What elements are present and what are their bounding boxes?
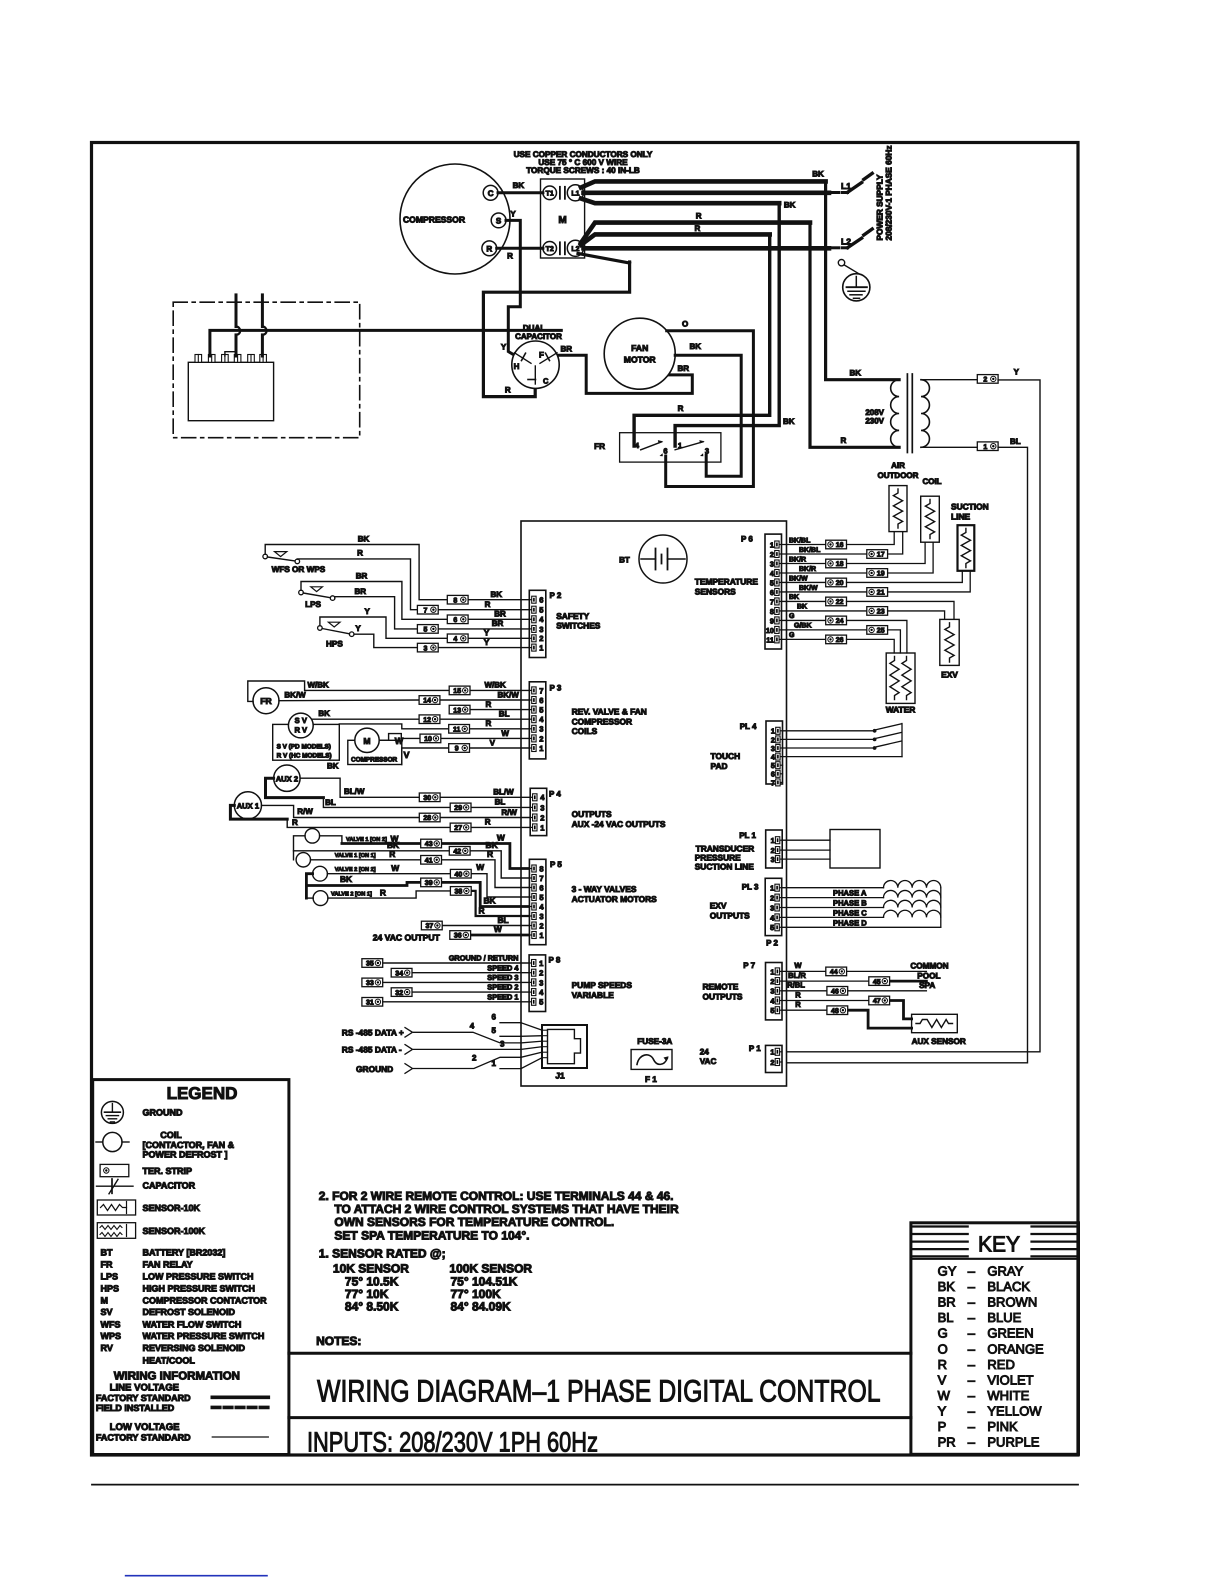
J1 stub wire 6 xyxy=(492,1013,521,1023)
disconnect supply wire 2 xyxy=(262,295,266,356)
terminal 9 xyxy=(449,744,470,753)
svg-text:2: 2 xyxy=(540,813,544,822)
svg-text:6: 6 xyxy=(453,617,457,624)
svg-text:R: R xyxy=(678,404,684,413)
contactor M box xyxy=(541,179,585,258)
svg-text:LEGEND: LEGEND xyxy=(167,1084,238,1103)
wire R compressor R to T2 xyxy=(497,248,543,260)
svg-text:45: 45 xyxy=(873,979,881,986)
svg-text:GRAY: GRAY xyxy=(987,1264,1023,1279)
svg-text:PL 1: PL 1 xyxy=(739,831,756,840)
svg-text:VAC: VAC xyxy=(700,1057,717,1066)
svg-text:S: S xyxy=(496,216,502,225)
FR contact 1-3 xyxy=(675,440,709,456)
svg-text:BK: BK xyxy=(812,170,824,179)
wire BK/BL P6 pin 2 to terminal 17 xyxy=(782,546,867,554)
svg-text:17: 17 xyxy=(877,552,885,559)
svg-text:PURPLE: PURPLE xyxy=(987,1435,1039,1450)
wire BK/W P6 pin 6 to terminal 21 xyxy=(782,584,867,592)
svg-text:10K SENSOR: 10K SENSOR xyxy=(333,1262,409,1276)
terminal 32 xyxy=(391,988,412,997)
svg-text:Y: Y xyxy=(355,624,361,633)
svg-text:6: 6 xyxy=(539,696,543,705)
svg-text:SAFETY: SAFETY xyxy=(556,611,589,621)
svg-text:BLACK: BLACK xyxy=(987,1279,1030,1294)
svg-text:2: 2 xyxy=(770,550,774,559)
power switch L1 blade and dashes xyxy=(831,173,872,192)
svg-text:FR: FR xyxy=(260,696,272,706)
svg-text:PR: PR xyxy=(938,1435,956,1450)
svg-text:G/BK: G/BK xyxy=(794,622,812,630)
terminal 8 xyxy=(447,595,468,604)
svg-text:L2: L2 xyxy=(841,237,851,247)
svg-text:WATER: WATER xyxy=(886,705,916,715)
svg-text:6: 6 xyxy=(539,596,543,605)
svg-text:12: 12 xyxy=(423,717,431,724)
legend abbreviation list xyxy=(101,1248,268,1366)
svg-text:47: 47 xyxy=(873,998,881,1005)
svg-text:26: 26 xyxy=(836,637,844,644)
wire BK P6 pin 8 to terminal 23 xyxy=(782,604,867,611)
legend capacitor symbol xyxy=(97,1179,196,1194)
sensor SUCTION LINE 10K xyxy=(958,525,975,571)
svg-text:T1: T1 xyxy=(546,191,554,198)
svg-text:2: 2 xyxy=(770,1058,774,1067)
svg-text:RED: RED xyxy=(987,1357,1014,1372)
svg-text:HPS: HPS xyxy=(101,1284,120,1294)
wire G P6 pin 9 to terminal 24 xyxy=(782,613,826,620)
legend coil symbol xyxy=(96,1130,235,1159)
wires air outdoor sensor to terminals 16 17 xyxy=(847,532,903,554)
svg-text:R: R xyxy=(505,385,511,394)
svg-text:Y: Y xyxy=(501,343,507,352)
svg-text:7: 7 xyxy=(539,686,543,695)
svg-text:P 6: P 6 xyxy=(741,535,753,544)
svg-text:COMPRESSOR CONTACTOR: COMPRESSOR CONTACTOR xyxy=(143,1295,268,1305)
contact marks T1-L1 xyxy=(560,187,565,199)
terminal 34 xyxy=(391,968,412,977)
svg-text:Y: Y xyxy=(484,629,490,638)
svg-text:AUX -24 VAC OUTPUTS: AUX -24 VAC OUTPUTS xyxy=(572,819,666,829)
svg-text:BR: BR xyxy=(678,364,690,373)
svg-text:4: 4 xyxy=(470,1022,475,1031)
terminal 4 xyxy=(447,634,468,643)
svg-text:5: 5 xyxy=(770,923,774,932)
terminal 38 xyxy=(450,887,471,896)
svg-text:P 2: P 2 xyxy=(766,939,778,948)
wire BL/R P7 pin2 to terminal 45 POOL xyxy=(782,971,941,981)
J1 stub wire 1 xyxy=(492,1059,521,1069)
svg-text:SPEED 2: SPEED 2 xyxy=(487,983,518,992)
svg-text:5: 5 xyxy=(770,1006,774,1015)
svg-text:208/230V-1 PHASE 60Hz: 208/230V-1 PHASE 60Hz xyxy=(884,145,894,240)
svg-text:AUX 2: AUX 2 xyxy=(276,774,298,783)
svg-text:3: 3 xyxy=(539,725,543,734)
connector P7 xyxy=(766,963,783,1020)
svg-text:REVERSING SOLENOID: REVERSING SOLENOID xyxy=(143,1343,246,1353)
connector PL1 xyxy=(766,830,783,868)
disconnect terminal teeth xyxy=(195,355,266,363)
svg-text:GREEN: GREEN xyxy=(987,1326,1033,1341)
wire R AUX1 left to terminal 27 to P4 pin 1 xyxy=(230,805,530,827)
svg-text:TER. STRIP: TER. STRIP xyxy=(143,1166,193,1176)
svg-text:W: W xyxy=(497,833,505,843)
svg-text:BT: BT xyxy=(101,1248,113,1258)
sensor WATER dual 10K xyxy=(886,653,915,703)
svg-text:WPS: WPS xyxy=(101,1331,122,1341)
svg-text:COIL: COIL xyxy=(922,477,941,486)
svg-text:6: 6 xyxy=(770,588,774,597)
wire SPEED 2 terminal 32 to P8 pin 4 xyxy=(412,983,529,992)
svg-text:HIGH PRESSURE SWITCH: HIGH PRESSURE SWITCH xyxy=(143,1284,256,1294)
aux relay coil AUX 2 xyxy=(274,765,300,791)
svg-text:FACTORY STANDARD: FACTORY STANDARD xyxy=(96,1433,191,1443)
svg-text:11: 11 xyxy=(453,727,461,734)
legend terminal strip symbol xyxy=(100,1164,192,1176)
terminal 47 xyxy=(869,996,890,1005)
RS-485 DATA - wire xyxy=(342,1040,521,1055)
wire R L2 loop to capacitor C terminal xyxy=(483,254,629,397)
svg-text:20: 20 xyxy=(836,580,844,587)
wire R valve1 ON1 to terminal 41 to P5 pin 6 xyxy=(311,849,530,887)
svg-text:FR: FR xyxy=(101,1260,113,1270)
svg-text:1: 1 xyxy=(770,884,774,893)
svg-text:O: O xyxy=(682,320,688,329)
svg-text:POOL: POOL xyxy=(917,971,940,980)
transformer 208/230V xyxy=(865,374,929,453)
wire BK/BL P6 pin 1 to terminal 16 xyxy=(782,536,826,544)
svg-text:–: – xyxy=(968,1279,976,1294)
svg-text:7: 7 xyxy=(423,607,427,614)
svg-text:VALVE 2 [ON 2]: VALVE 2 [ON 2] xyxy=(335,866,376,873)
svg-text:BL: BL xyxy=(1010,437,1021,446)
valve 2 coil ON1 xyxy=(313,891,328,906)
svg-text:–: – xyxy=(968,1357,976,1372)
svg-text:LPS: LPS xyxy=(305,600,321,609)
svg-text:BK/BL: BK/BL xyxy=(789,536,811,544)
svg-text:PHASE A: PHASE A xyxy=(833,889,867,898)
wire R L2 to transformer primary bottom xyxy=(581,212,899,448)
svg-text:M: M xyxy=(363,736,370,746)
jack J1 xyxy=(542,1025,587,1081)
wire R valve2 ON1 to terminal 38 to P5 pin 3 xyxy=(306,887,529,916)
svg-text:–: – xyxy=(968,1310,976,1325)
svg-text:19: 19 xyxy=(877,571,885,578)
svg-text:LOW PRESSURE SWITCH: LOW PRESSURE SWITCH xyxy=(143,1272,254,1282)
EXV phase coils xyxy=(782,881,941,928)
svg-text:BR: BR xyxy=(356,572,368,581)
svg-text:W: W xyxy=(494,924,502,934)
aux sensor resistor xyxy=(912,1014,966,1046)
svg-text:42: 42 xyxy=(453,849,461,856)
line voltage factory standard sample xyxy=(96,1393,268,1403)
key color list xyxy=(938,1264,1044,1450)
svg-text:GROUND: GROUND xyxy=(143,1108,183,1118)
svg-text:R: R xyxy=(292,818,298,827)
svg-text:1: 1 xyxy=(771,836,775,845)
svg-text:–: – xyxy=(968,1341,976,1356)
wire BL/W AUX2 to terminal 30 to P4 pin 4 xyxy=(300,778,530,797)
contactor T2 terminal xyxy=(543,242,557,256)
svg-text:Y: Y xyxy=(510,210,516,219)
fuse F1 xyxy=(631,1037,672,1084)
svg-text:BK: BK xyxy=(491,590,503,599)
GROUND wire xyxy=(356,1054,521,1074)
fan relay FR contact box xyxy=(620,433,721,462)
connector PL3 xyxy=(765,878,782,935)
wire BK valve2 common to terminal 39 to P5 pin 4 xyxy=(306,874,529,907)
svg-text:G: G xyxy=(938,1326,948,1341)
svg-text:BK: BK xyxy=(358,535,370,544)
control board outline xyxy=(521,521,787,1086)
svg-text:H: H xyxy=(514,362,520,371)
svg-text:5: 5 xyxy=(423,627,427,634)
svg-text:REV. VALVE & FAN: REV. VALVE & FAN xyxy=(572,707,647,717)
svg-text:46: 46 xyxy=(831,989,839,996)
svg-text:3: 3 xyxy=(423,645,427,652)
svg-text:P 1: P 1 xyxy=(749,1044,761,1053)
svg-text:230V: 230V xyxy=(865,416,884,425)
svg-text:R/W: R/W xyxy=(297,807,313,816)
svg-text:1: 1 xyxy=(492,1059,497,1068)
terminal 3 xyxy=(417,643,438,652)
svg-text:WFS OR WPS: WFS OR WPS xyxy=(272,565,326,574)
svg-text:1: 1 xyxy=(770,1048,774,1057)
disconnect panel box xyxy=(188,362,273,420)
svg-text:SENSOR-10K: SENSOR-10K xyxy=(143,1203,201,1213)
terminal 31 xyxy=(362,998,383,1007)
svg-text:FIELD INSTALLED: FIELD INSTALLED xyxy=(96,1403,175,1413)
wire BL terminal 1 to P1 pin 2 xyxy=(787,437,1028,1063)
svg-text:S V (PD MODELS): S V (PD MODELS) xyxy=(277,744,331,751)
svg-text:PHASE B: PHASE B xyxy=(833,899,867,908)
terminal 23 xyxy=(867,607,888,616)
terminal 12 xyxy=(419,715,440,724)
svg-text:BK: BK xyxy=(690,342,702,351)
svg-text:R: R xyxy=(486,244,492,253)
wire Y compressor S to dual capacitor H xyxy=(501,210,524,361)
J1 fan-in wires xyxy=(521,1023,542,1069)
terminal 30 xyxy=(419,793,440,802)
svg-text:3: 3 xyxy=(770,987,774,996)
terminal 15 xyxy=(449,686,470,695)
svg-text:BL: BL xyxy=(499,710,510,719)
svg-text:24: 24 xyxy=(836,618,844,625)
svg-text:NOTES:: NOTES: xyxy=(316,1334,361,1348)
svg-text:PL 4: PL 4 xyxy=(740,722,757,731)
wire BK valve1 common to terminal 42 to P5 pin 7 xyxy=(294,836,530,878)
svg-text:BK: BK xyxy=(318,709,330,718)
terminal 21 xyxy=(867,588,888,597)
sensor AIR OUTDOOR 10K xyxy=(889,486,907,532)
svg-text:W: W xyxy=(476,862,484,872)
svg-text:CAPACITOR: CAPACITOR xyxy=(515,332,562,341)
wire BK/W FR coil to terminal 14 to P3 pin 6 xyxy=(279,690,529,700)
terminal 16 xyxy=(826,540,847,549)
wire L2 feed to disconnect switch xyxy=(584,246,830,251)
wire BK fan motor to FR contact 3 xyxy=(675,342,741,476)
svg-text:W/BK: W/BK xyxy=(485,681,507,690)
svg-text:AIR: AIR xyxy=(891,461,905,470)
svg-text:R: R xyxy=(486,719,492,728)
wire BK WFS to terminal 8 to P2 pin 6 xyxy=(265,535,529,600)
svg-text:15: 15 xyxy=(453,688,461,695)
svg-text:KEY: KEY xyxy=(978,1232,1020,1257)
svg-text:P 8: P 8 xyxy=(549,956,561,965)
svg-text:W/BK: W/BK xyxy=(308,681,330,690)
svg-text:R: R xyxy=(795,1000,801,1009)
wire BK L1 to fan relay contact 1 xyxy=(581,199,796,447)
wire W valve1 ON2 to terminal 43 to P5 pin 8 xyxy=(320,833,530,869)
svg-text:WIRING DIAGRAM–1 PHASE DIGI: WIRING DIAGRAM–1 PHASE DIGITAL CONTROL xyxy=(317,1374,881,1409)
svg-text:WIRING INFORMATION: WIRING INFORMATION xyxy=(114,1371,240,1383)
svg-text:2: 2 xyxy=(983,377,987,384)
svg-text:OUTDOOR: OUTDOOR xyxy=(878,471,919,480)
FR contact 4-6 xyxy=(635,440,668,456)
sensor COIL 10K xyxy=(921,496,940,542)
contactor L2 terminal xyxy=(567,240,583,256)
svg-text:3: 3 xyxy=(539,978,543,987)
svg-text:BK: BK xyxy=(784,201,796,210)
svg-text:CAPACITOR: CAPACITOR xyxy=(143,1181,196,1191)
svg-text:RV: RV xyxy=(101,1343,113,1353)
svg-text:W: W xyxy=(938,1388,951,1403)
svg-text:POWER DEFROST ]: POWER DEFROST ] xyxy=(143,1149,228,1159)
terminal 44 xyxy=(826,967,847,976)
switch WFS OR WPS xyxy=(263,552,326,574)
svg-text:FUSE-3A: FUSE-3A xyxy=(637,1037,672,1046)
wires WATER sensor to terminals 24 25 26 xyxy=(847,620,907,653)
svg-text:R: R xyxy=(380,887,386,897)
terminal 48 xyxy=(827,1006,848,1015)
svg-text:BK: BK xyxy=(789,594,799,601)
connector P3 xyxy=(529,682,546,759)
svg-text:1: 1 xyxy=(770,967,774,976)
wire SPEED 1 terminal 31 to P8 pin 5 xyxy=(383,992,529,1001)
blue footer underline xyxy=(126,1575,267,1577)
wire BK/R P6 pin 4 to terminal 19 xyxy=(782,565,867,573)
svg-text:BK: BK xyxy=(797,604,807,611)
svg-text:BK: BK xyxy=(327,762,339,771)
svg-text:W: W xyxy=(501,729,509,738)
svg-text:V: V xyxy=(938,1372,947,1387)
contact marks T2-L2 xyxy=(560,242,565,254)
svg-text:REMOTE: REMOTE xyxy=(703,982,739,992)
svg-text:P 4: P 4 xyxy=(549,790,561,799)
svg-text:–: – xyxy=(968,1435,976,1450)
terminal strip 1 xyxy=(977,442,998,451)
svg-text:24: 24 xyxy=(700,1048,710,1057)
svg-text:R: R xyxy=(938,1357,947,1372)
compressor terminal C xyxy=(483,185,498,200)
svg-text:R: R xyxy=(507,252,513,261)
svg-text:–: – xyxy=(968,1326,976,1341)
svg-text:SENSORS: SENSORS xyxy=(695,586,736,596)
svg-text:84° 84.09K: 84° 84.09K xyxy=(451,1300,512,1314)
terminal strip 2 xyxy=(977,375,998,384)
svg-text:BT: BT xyxy=(619,556,630,565)
svg-text:SV: SV xyxy=(101,1307,113,1317)
svg-text:3: 3 xyxy=(770,903,774,912)
svg-text:38: 38 xyxy=(455,889,463,896)
wire GROUND / RETURN terminal 35 to P8 pin 1 xyxy=(383,954,529,963)
svg-text:2: 2 xyxy=(771,846,775,855)
terminal 14 xyxy=(419,696,440,705)
svg-text:G: G xyxy=(789,632,795,639)
svg-text:2: 2 xyxy=(472,1054,477,1063)
svg-text:3: 3 xyxy=(771,855,775,864)
svg-text:SPEED 3: SPEED 3 xyxy=(487,973,518,982)
svg-text:31: 31 xyxy=(366,1000,374,1007)
svg-text:WATER FLOW SWITCH: WATER FLOW SWITCH xyxy=(143,1319,242,1329)
svg-text:C: C xyxy=(543,377,549,386)
svg-text:S V: S V xyxy=(295,716,308,725)
svg-text:VARIABLE: VARIABLE xyxy=(572,990,615,1000)
wires coil sensor to terminals 18 19 xyxy=(847,542,934,573)
svg-text:VALVE 1 [ON 2]: VALVE 1 [ON 2] xyxy=(346,836,387,843)
low voltage factory standard sample xyxy=(96,1433,268,1443)
wire BK compressor C to T1 xyxy=(498,181,543,193)
svg-text:HEAT/COOL: HEAT/COOL xyxy=(143,1355,196,1365)
svg-text:PAD: PAD xyxy=(711,761,728,771)
svg-text:TEMPERATURE: TEMPERATURE xyxy=(695,577,759,587)
wire W P7 pin1 to terminal 44 COMMON xyxy=(782,961,949,971)
svg-text:36: 36 xyxy=(454,933,462,940)
wire secondary bottom to terminal 1 xyxy=(921,446,977,448)
terminal 19 xyxy=(867,569,888,578)
wire SPEED 3 terminal 33 to P8 pin 3 xyxy=(383,973,529,982)
svg-text:R: R xyxy=(695,224,701,233)
wire W valve2 ON2 to terminal 40 to P5 pin 5 xyxy=(327,862,529,897)
terminal 29 xyxy=(450,803,471,812)
switch LPS xyxy=(299,587,335,609)
battery BT xyxy=(619,535,687,583)
svg-text:OUTPUTS: OUTPUTS xyxy=(572,809,612,819)
svg-text:COIL: COIL xyxy=(160,1130,182,1140)
svg-text:BL/W: BL/W xyxy=(493,788,514,797)
wire BL terminal 37 to P5 pin 2 xyxy=(442,915,529,926)
svg-text:P: P xyxy=(938,1419,947,1434)
svg-text:L1: L1 xyxy=(571,191,579,198)
svg-text:EXV: EXV xyxy=(941,670,958,680)
svg-text:BR: BR xyxy=(492,619,504,628)
svg-text:39: 39 xyxy=(425,880,433,887)
wire R P7 pin5 to terminal 48 to aux sensor xyxy=(782,1000,912,1028)
svg-text:INPUTS: 208/230V 1PH 60Hz: INPUTS: 208/230V 1PH 60Hz xyxy=(307,1427,598,1458)
svg-text:BATTERY [BR2032]: BATTERY [BR2032] xyxy=(143,1248,226,1258)
svg-text:9: 9 xyxy=(455,746,459,753)
connector P1 xyxy=(766,1045,783,1072)
svg-text:F 1: F 1 xyxy=(645,1075,657,1084)
svg-text:VIOLET: VIOLET xyxy=(987,1372,1033,1387)
svg-text:ORANGE: ORANGE xyxy=(987,1341,1044,1356)
wire Y HPS left to terminal 4 to P2 pin 2 xyxy=(320,607,529,638)
wire R terminal 13 to P3 pin 5 xyxy=(470,700,529,710)
wire BK/R P6 pin 3 to terminal 18 xyxy=(782,555,826,563)
svg-text:COMMON: COMMON xyxy=(910,962,948,971)
svg-text:R V (HC MODELS): R V (HC MODELS) xyxy=(277,753,332,760)
svg-text:EXV: EXV xyxy=(710,901,727,911)
svg-text:TORQUE SCREWS : 40 IN-LB: TORQUE SCREWS : 40 IN-LB xyxy=(526,166,640,175)
svg-text:37: 37 xyxy=(426,923,434,930)
svg-text:Y: Y xyxy=(365,607,371,616)
svg-text:–: – xyxy=(968,1403,976,1418)
terminal 37 xyxy=(421,921,442,930)
svg-text:10: 10 xyxy=(424,736,432,743)
svg-text:P 3: P 3 xyxy=(550,684,562,693)
svg-text:9: 9 xyxy=(770,616,774,625)
RS-485 DATA + wire xyxy=(342,1022,521,1043)
